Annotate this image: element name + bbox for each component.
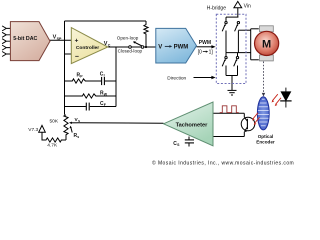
svg-text:P: P	[80, 75, 83, 79]
svg-text:50K: 50K	[50, 119, 59, 125]
svg-text:SP: SP	[57, 37, 62, 41]
svg-text:S: S	[177, 143, 180, 147]
svg-text:H-bridge: H-bridge	[207, 6, 226, 12]
svg-text:V7.3: V7.3	[28, 127, 38, 133]
svg-text:–: –	[75, 54, 79, 61]
svg-text:V: V	[158, 45, 162, 51]
svg-text:4.7K: 4.7K	[47, 142, 58, 148]
svg-text:Tachometer: Tachometer	[176, 122, 209, 128]
svg-text:Open-loop: Open-loop	[117, 35, 139, 40]
svg-text:+: +	[75, 38, 79, 45]
svg-text:s: s	[77, 135, 79, 139]
svg-text:5-bit DAC: 5-bit DAC	[13, 36, 37, 42]
svg-text:M: M	[262, 39, 271, 51]
svg-text:s: s	[78, 119, 80, 123]
svg-text:Vin: Vin	[244, 3, 251, 9]
svg-text:Direction: Direction	[167, 75, 186, 81]
svg-text:[0: [0	[198, 49, 202, 55]
svg-text:PWM: PWM	[174, 45, 189, 51]
svg-text:1]: 1]	[209, 49, 214, 55]
svg-text:Optical: Optical	[258, 134, 274, 139]
svg-text:Closed-loop: Closed-loop	[118, 49, 143, 54]
svg-text:© Mosaic Industries, Inc., www: © Mosaic Industries, Inc., www.mosaic-in…	[152, 160, 294, 167]
svg-text:Controller: Controller	[76, 45, 99, 51]
svg-text:C: C	[108, 44, 111, 48]
svg-text:PWM: PWM	[199, 40, 211, 46]
svg-text:Encoder: Encoder	[256, 140, 275, 145]
svg-text:I: I	[104, 74, 105, 78]
